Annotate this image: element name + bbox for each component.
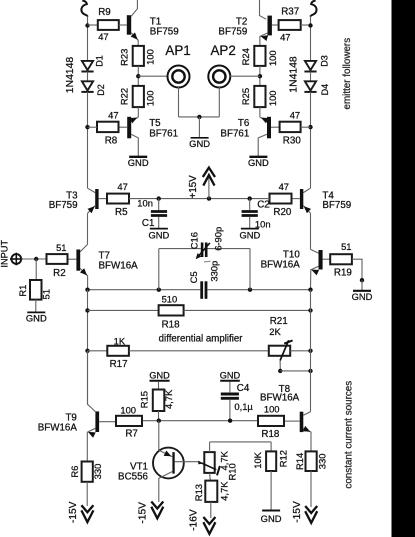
svg-text:BC556: BC556 — [118, 472, 149, 483]
svg-text:GND: GND — [352, 291, 373, 302]
svg-text:47: 47 — [98, 31, 108, 42]
node main/right rail — [308, 288, 312, 292]
emitter arrow T8 — [303, 426, 311, 432]
wire rail to T9 collector — [88, 351, 96, 412]
wire R18 to T8 base — [284, 420, 300, 422]
trimmer capacitor C16 — [201, 243, 204, 258]
svg-text:GND: GND — [149, 370, 170, 380]
resistor R2 — [47, 254, 68, 264]
node wiper — [278, 369, 282, 373]
node R24/R25/AP2 — [258, 74, 262, 78]
diode D3 — [305, 61, 316, 70]
ground R1 — [27, 311, 45, 313]
svg-text:constant current sources: constant current sources — [344, 381, 355, 489]
wire T9 emitter — [87, 428, 95, 461]
svg-text:51: 51 — [341, 241, 351, 252]
wire R22 to T5 — [137, 107, 139, 117]
svg-text:330: 330 — [316, 454, 327, 470]
wire gnd stem — [361, 280, 363, 290]
node AP gnd — [197, 115, 201, 119]
wire R23-R22 — [137, 66, 139, 86]
wire R10 top stem — [209, 442, 211, 452]
potentiometer R21 — [269, 346, 290, 356]
wire T3 emitter — [88, 206, 96, 214]
resistor R18 510 — [159, 305, 184, 315]
svg-text:R25: R25 — [240, 88, 251, 105]
supply arrow +15V — [203, 168, 215, 177]
svg-text:R5: R5 — [115, 207, 128, 218]
diode D2 — [82, 81, 93, 90]
svg-text:R9: R9 — [98, 7, 111, 18]
svg-text:10n: 10n — [255, 219, 271, 230]
emitter arrow T6 — [261, 118, 269, 124]
wire T8 emitter — [303, 428, 311, 451]
emitter arrow T5 — [130, 118, 138, 124]
wire wiper to rail — [280, 370, 310, 372]
svg-text:100: 100 — [267, 90, 278, 106]
svg-text:INPUT: INPUT — [0, 240, 10, 268]
resistor R17 — [107, 346, 129, 356]
supply arrow -15V R6 — [81, 505, 93, 512]
svg-text:4,7K: 4,7K — [218, 481, 229, 501]
svg-text:47: 47 — [117, 181, 127, 192]
svg-text:1N4148: 1N4148 — [65, 57, 76, 94]
capacitor C1 — [151, 210, 167, 213]
node main/C16 right — [248, 288, 252, 292]
ground T5 — [129, 156, 147, 158]
svg-text:R6: R6 — [69, 466, 80, 478]
node main/left rail — [85, 288, 89, 292]
resistor R37 — [279, 20, 301, 30]
ground C1 — [150, 228, 168, 230]
wire T10 emitter — [311, 266, 319, 289]
svg-text:BF759: BF759 — [218, 27, 247, 38]
wire R19 to gnd — [352, 259, 362, 280]
wire T3e-T7c — [87, 213, 89, 244]
svg-text:R22: R22 — [118, 88, 129, 105]
transistor VT1 circle — [153, 448, 184, 479]
wire gnd to C4 — [229, 382, 231, 393]
wire R9 left — [88, 24, 98, 26]
svg-text:R17: R17 — [110, 359, 128, 370]
wire R12 to gnd — [270, 471, 272, 510]
emitter arrow VT1 — [164, 451, 172, 457]
svg-text:differential amplifier: differential amplifier — [159, 333, 244, 344]
svg-text:emitter followers: emitter followers — [342, 38, 353, 110]
wire main line right — [207, 289, 310, 291]
svg-text:BF759: BF759 — [150, 27, 179, 38]
wire R2 to T7 base — [68, 258, 77, 260]
svg-text:4,7K: 4,7K — [163, 389, 174, 409]
node R15/VT1 tap — [157, 419, 161, 423]
svg-text:BF761: BF761 — [149, 128, 178, 139]
svg-text:T6: T6 — [238, 118, 250, 129]
node R18 line right — [308, 308, 312, 312]
test point AP1 — [168, 66, 190, 88]
svg-text:BFW16A: BFW16A — [38, 422, 78, 433]
svg-text:100: 100 — [120, 404, 136, 415]
node main/C16 left — [157, 288, 161, 292]
resistor R24 — [254, 46, 265, 66]
wire T2 collector — [260, 0, 267, 19]
resistor R22 — [133, 86, 144, 107]
svg-text:10K: 10K — [252, 451, 263, 468]
wire rail to T8 collector — [303, 412, 310, 416]
svg-text:47: 47 — [290, 109, 300, 120]
svg-text:GND: GND — [239, 229, 260, 240]
wire T5 emitter — [131, 117, 138, 121]
svg-text:R23: R23 — [118, 49, 129, 66]
svg-text:GND: GND — [26, 313, 47, 324]
svg-text:R8: R8 — [105, 136, 118, 147]
wire mid bus — [129, 198, 270, 200]
svg-text:GND: GND — [189, 138, 210, 149]
wire R30 to rail — [301, 126, 311, 128]
trimmer R10 — [204, 452, 214, 473]
wire T7 emitter — [80, 268, 87, 289]
svg-text:D2: D2 — [96, 84, 106, 96]
wire T7 collector — [80, 244, 87, 251]
resistor R23 — [133, 46, 144, 66]
wire to R17 — [88, 350, 108, 352]
wire R1 to gnd — [35, 300, 37, 312]
wire C2 top — [249, 199, 251, 211]
supply arrow -16V R13 — [203, 517, 215, 524]
svg-text:-16V: -16V — [189, 509, 200, 531]
resistor R13 — [205, 481, 217, 502]
svg-text:GND: GND — [261, 513, 282, 524]
ground C2 — [241, 228, 259, 230]
svg-text:BFW16A: BFW16A — [260, 393, 300, 404]
wire C1 top — [158, 199, 160, 211]
wire C16 loop right — [249, 249, 251, 290]
svg-text:-15V: -15V — [292, 501, 303, 523]
svg-text:GND: GND — [128, 157, 149, 168]
node R17 line left — [85, 349, 89, 353]
wire T6 base to R30 — [271, 126, 280, 128]
svg-text:C4: C4 — [237, 383, 250, 394]
wire R9 to T1 base — [119, 24, 127, 26]
test point AP2 — [208, 66, 230, 88]
wire T4e-T10c — [310, 213, 312, 249]
emitter arrow T3 — [88, 206, 95, 213]
svg-text:R19: R19 — [334, 268, 352, 279]
diode D1 — [82, 61, 93, 70]
pointer dash C16 — [204, 260, 211, 263]
node R18 line left — [85, 308, 89, 312]
svg-text:D4: D4 — [320, 84, 330, 96]
wire C16 top right — [208, 248, 251, 250]
svg-text:GND: GND — [248, 157, 269, 168]
wire R10-R12 link — [210, 441, 272, 443]
wire R12 top stem — [270, 442, 272, 452]
resistor R12 — [266, 451, 276, 471]
wire break squiggle top-left — [81, 1, 87, 17]
node R23/R22/AP1 — [136, 74, 140, 78]
svg-text:C5: C5 — [188, 271, 199, 283]
resistor R19 — [330, 254, 352, 264]
wiper R21 — [280, 340, 289, 360]
svg-text:510: 510 — [162, 294, 178, 305]
wire T6 collector to gnd — [258, 134, 267, 156]
ground R19 — [353, 290, 371, 292]
wire rail to T3 collector — [88, 188, 96, 192]
svg-text:BFW16A: BFW16A — [99, 260, 139, 271]
node +15V tap — [207, 196, 211, 200]
wire left rail lower — [87, 290, 89, 405]
svg-text:R13: R13 — [193, 484, 204, 501]
node C4 tap — [228, 419, 232, 423]
wire R21 wiper down — [279, 361, 281, 371]
wire R17 to R21 — [129, 350, 269, 352]
wire T1 collector — [131, 0, 137, 16]
wire D1-D2 — [87, 72, 89, 82]
svg-text:R18: R18 — [162, 320, 181, 331]
wire R13 to -16V — [210, 502, 212, 518]
supply arrow -15V R14 — [305, 506, 317, 513]
svg-text:R37: R37 — [281, 7, 299, 18]
wire AP2 to node — [230, 75, 260, 77]
wire to R1 — [35, 259, 37, 280]
svg-text:BF761: BF761 — [220, 128, 249, 139]
wire T1 emitter — [131, 33, 138, 46]
node wiper/rail — [308, 369, 312, 373]
wire C16 top left — [159, 248, 201, 250]
wire VT1 emitter diag — [159, 450, 173, 457]
resistor R9 — [98, 20, 119, 30]
svg-text:C2: C2 — [257, 200, 270, 211]
wire R14 to -15V — [310, 471, 312, 507]
wire C16 loop left — [158, 249, 160, 290]
wire input to R2 — [21, 258, 46, 260]
svg-text:BFW16A: BFW16A — [261, 260, 301, 271]
wire C1 bottom — [158, 217, 160, 228]
svg-text:51: 51 — [41, 289, 52, 299]
svg-text:-15V: -15V — [138, 502, 149, 524]
wire to gnd — [198, 117, 200, 137]
svg-text:GND: GND — [220, 370, 241, 380]
wire bottom bus — [142, 420, 258, 422]
node left rail / R9 junction — [85, 23, 89, 27]
resistor R20 — [270, 194, 292, 204]
svg-text:C1: C1 — [142, 218, 155, 229]
wire main line left — [88, 289, 201, 291]
wire R10-R13 — [209, 473, 212, 481]
wire T5 collector to gnd — [131, 134, 138, 156]
svg-text:T5: T5 — [149, 118, 161, 129]
wire to R18 — [88, 309, 159, 311]
node input / R1 — [34, 257, 38, 261]
wire T9 base to R7 — [99, 421, 116, 423]
node R19 gnd stem — [360, 278, 364, 282]
svg-text:R15: R15 — [139, 391, 150, 408]
wire rail to R8 — [88, 126, 98, 128]
emitter arrow T7 — [80, 268, 87, 275]
emitter arrow T10 — [311, 270, 319, 276]
wire R6 to -15V — [86, 482, 88, 506]
svg-text:GND: GND — [148, 229, 169, 240]
wire to AP1 — [138, 75, 168, 77]
svg-text:R2: R2 — [53, 268, 66, 279]
svg-text:100: 100 — [267, 50, 278, 66]
wire C2 bottom — [249, 217, 251, 228]
wire right rail lower — [310, 290, 312, 412]
resistor R30 — [280, 122, 301, 132]
ground AP midpoint — [191, 137, 209, 139]
svg-text:2K: 2K — [269, 326, 281, 337]
wire gnd to R15 — [158, 382, 160, 390]
wire R25 to T6 — [259, 107, 261, 117]
svg-text:R18: R18 — [261, 429, 280, 440]
svg-text:R1: R1 — [17, 285, 28, 297]
svg-text:1N4148: 1N4148 — [289, 56, 300, 93]
svg-text:100: 100 — [145, 49, 156, 65]
wire T6 emitter — [260, 117, 267, 121]
wire R24-R25 — [259, 66, 261, 86]
wire +15V stem — [208, 176, 210, 199]
svg-text:R24: R24 — [240, 48, 251, 65]
diode D4 — [305, 81, 316, 90]
wire T3 base to R5 — [99, 198, 107, 200]
trimmer arrow C16 — [196, 253, 202, 259]
capacitor C2 — [242, 210, 258, 213]
resistor R5 — [107, 194, 129, 204]
input terminal — [11, 254, 21, 264]
svg-text:47: 47 — [108, 109, 118, 120]
svg-text:C16: C16 — [189, 232, 200, 249]
node right rail / R30 junction — [308, 125, 312, 129]
svg-text:R20: R20 — [273, 207, 292, 218]
wire rail to T4 collector — [303, 188, 310, 192]
svg-text:0,1µ: 0,1µ — [234, 401, 253, 412]
svg-text:AP1: AP1 — [165, 43, 190, 58]
wire R18 to right rail — [184, 309, 311, 311]
node R17 line right — [308, 349, 312, 353]
resistor R18 100 — [258, 416, 284, 426]
wire VT1 collector down — [159, 472, 173, 503]
emitter arrow T4 — [304, 206, 311, 213]
svg-text:R30: R30 — [283, 136, 302, 147]
svg-text:6-90p: 6-90p — [213, 227, 224, 251]
wire T2 emitter — [260, 33, 268, 46]
wire AP gnd bus — [179, 116, 220, 118]
wire AP2 down — [218, 87, 220, 117]
capacitor C4 — [221, 393, 239, 396]
resistor R1 — [30, 280, 42, 300]
svg-text:AP2: AP2 — [211, 43, 236, 58]
svg-text:100: 100 — [264, 404, 280, 415]
svg-text:10n: 10n — [137, 197, 153, 208]
resistor R25 — [254, 86, 265, 107]
node C1 tap — [157, 196, 161, 200]
wire R15 to bus — [158, 411, 160, 421]
ground R12 — [262, 510, 280, 512]
wire break squiggle top-right — [311, 1, 317, 17]
svg-text:1K: 1K — [114, 335, 126, 346]
svg-text:330: 330 — [92, 464, 103, 480]
emitter arrow T9 — [88, 432, 96, 438]
resistor R7 — [116, 416, 142, 426]
svg-text:R7: R7 — [125, 429, 138, 440]
resistor R8 — [97, 122, 119, 132]
svg-text:BF759: BF759 — [49, 200, 78, 211]
resistor R14 — [306, 451, 317, 471]
emitter arrow T2 — [260, 35, 268, 41]
resistor R15 — [153, 390, 165, 412]
black scan bar right edge — [392, 0, 415, 537]
wire VT1 base to R10 wiper — [175, 461, 199, 463]
wire C4 to bus — [229, 400, 231, 421]
wire D4 to T4 — [310, 92, 312, 188]
ground T6 — [249, 156, 267, 158]
wire R20 to T4 base — [292, 198, 300, 200]
emitter arrow T1 — [131, 32, 138, 39]
svg-text:R14: R14 — [294, 453, 305, 470]
svg-text:47: 47 — [279, 181, 289, 192]
wire T10 collector — [311, 249, 319, 253]
wire right rail top — [310, 17, 312, 61]
node right rail / R37 junction — [308, 23, 312, 27]
wire T2 base to R37 — [272, 24, 279, 26]
svg-text:D3: D3 — [320, 55, 330, 67]
svg-text:47: 47 — [280, 31, 290, 42]
svg-text:100: 100 — [145, 91, 156, 107]
svg-text:-15V: -15V — [68, 501, 79, 523]
wire R8 to T5 base — [119, 126, 128, 128]
svg-text:+15V: +15V — [188, 175, 199, 199]
wire R21 to rail — [290, 350, 310, 352]
wire D2 to T3 — [87, 92, 89, 188]
node C2 tap — [248, 196, 252, 200]
supply arrow -15V VT1 — [151, 502, 163, 509]
capacitor C5 — [200, 281, 203, 299]
svg-text:R12: R12 — [277, 450, 288, 467]
svg-text:BF759: BF759 — [322, 200, 351, 211]
svg-text:D1: D1 — [95, 55, 105, 67]
svg-text:R10: R10 — [226, 463, 237, 480]
resistor R6 — [82, 462, 93, 482]
wire left rail top — [87, 17, 89, 61]
node left rail / R8 junction — [85, 125, 89, 129]
wire R37 to right rail — [301, 24, 311, 26]
svg-text:51: 51 — [56, 242, 66, 253]
wire T10 base to R19 — [323, 258, 331, 260]
wire AP1 down — [178, 87, 180, 117]
wire D3-D4 — [310, 72, 312, 82]
wire bus to VT1 collector — [158, 421, 160, 451]
svg-text:330p: 330p — [209, 261, 220, 282]
wire T4 emitter — [303, 206, 310, 214]
